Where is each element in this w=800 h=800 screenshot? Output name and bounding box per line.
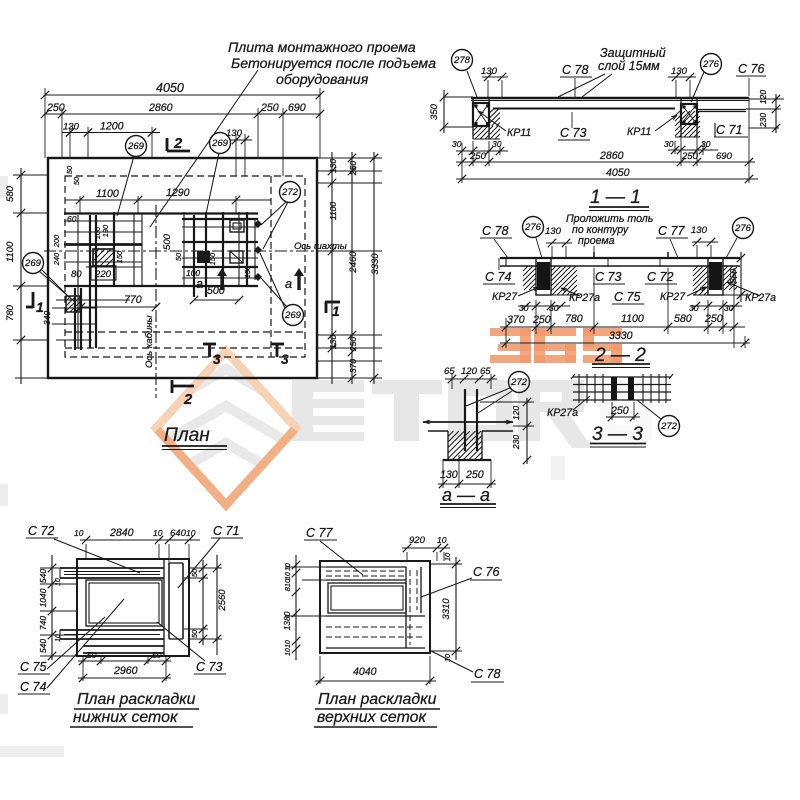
svg-text:1100: 1100 bbox=[5, 241, 16, 262]
svg-text:а: а bbox=[285, 276, 292, 291]
svg-text:276: 276 bbox=[524, 222, 542, 233]
svg-text:С 75: С 75 bbox=[614, 290, 640, 304]
svg-text:С 78: С 78 bbox=[562, 63, 588, 77]
svg-text:130: 130 bbox=[328, 335, 338, 349]
svg-text:С 74: С 74 bbox=[20, 680, 46, 694]
svg-text:780: 780 bbox=[5, 304, 16, 321]
svg-text:1 — 1: 1 — 1 bbox=[590, 187, 641, 208]
svg-text:С 73: С 73 bbox=[595, 270, 621, 284]
svg-text:50: 50 bbox=[190, 629, 199, 638]
svg-text:810: 810 bbox=[283, 578, 292, 591]
svg-text:120: 120 bbox=[461, 366, 478, 377]
svg-text:690: 690 bbox=[288, 102, 306, 114]
svg-text:С 76: С 76 bbox=[738, 62, 764, 76]
svg-text:10: 10 bbox=[437, 535, 447, 545]
svg-text:120: 120 bbox=[511, 406, 521, 420]
svg-text:План: План bbox=[164, 425, 210, 446]
svg-text:540: 540 bbox=[38, 569, 48, 583]
svg-text:250: 250 bbox=[532, 314, 551, 326]
svg-text:Ось кабины: Ось кабины bbox=[144, 315, 155, 368]
svg-text:640: 640 bbox=[170, 528, 187, 539]
svg-text:65: 65 bbox=[480, 366, 491, 377]
svg-text:3330: 3330 bbox=[370, 253, 381, 275]
svg-text:10: 10 bbox=[186, 528, 196, 538]
svg-text:С 78: С 78 bbox=[482, 224, 508, 238]
svg-text:10: 10 bbox=[285, 563, 292, 571]
svg-text:50: 50 bbox=[152, 650, 162, 660]
svg-text:269: 269 bbox=[24, 258, 42, 269]
svg-text:3330: 3330 bbox=[609, 330, 633, 342]
svg-text:230: 230 bbox=[511, 435, 521, 450]
svg-text:С 71: С 71 bbox=[213, 524, 239, 538]
svg-text:2860: 2860 bbox=[148, 102, 173, 114]
svg-text:272: 272 bbox=[281, 187, 299, 198]
svg-text:1: 1 bbox=[332, 304, 340, 319]
svg-text:4050: 4050 bbox=[156, 81, 184, 95]
svg-text:10: 10 bbox=[55, 578, 62, 586]
svg-text:276: 276 bbox=[734, 223, 752, 234]
svg-text:План раскладки: План раскладки bbox=[77, 691, 196, 708]
svg-text:580: 580 bbox=[5, 185, 16, 202]
svg-text:Ось шахты: Ось шахты bbox=[294, 241, 347, 252]
svg-text:1200: 1200 bbox=[100, 121, 124, 133]
svg-text:30: 30 bbox=[452, 139, 462, 149]
svg-text:370: 370 bbox=[507, 314, 525, 326]
svg-text:2: 2 bbox=[183, 392, 193, 408]
svg-text:КР11: КР11 bbox=[507, 127, 531, 139]
svg-text:2560: 2560 bbox=[217, 589, 228, 612]
svg-text:50: 50 bbox=[72, 176, 81, 185]
svg-text:130: 130 bbox=[440, 469, 458, 481]
svg-text:С 72: С 72 bbox=[28, 524, 54, 538]
svg-text:1100: 1100 bbox=[96, 188, 119, 200]
svg-text:3: 3 bbox=[213, 352, 221, 367]
svg-text:130: 130 bbox=[328, 159, 338, 173]
svg-text:3: 3 bbox=[281, 352, 289, 367]
svg-text:30: 30 bbox=[549, 303, 559, 313]
svg-text:С 73: С 73 bbox=[560, 126, 586, 140]
svg-text:150: 150 bbox=[208, 252, 217, 265]
svg-text:1290: 1290 bbox=[166, 187, 190, 199]
svg-text:580: 580 bbox=[674, 313, 692, 325]
svg-text:С 78: С 78 bbox=[474, 667, 500, 681]
svg-text:С 72: С 72 bbox=[647, 270, 673, 284]
svg-text:нижних сеток: нижних сеток bbox=[73, 709, 179, 726]
svg-text:272: 272 bbox=[510, 377, 528, 388]
svg-text:4050: 4050 bbox=[606, 167, 630, 179]
svg-text:верхних сеток: верхних сеток bbox=[317, 709, 427, 726]
svg-text:КР27: КР27 bbox=[492, 291, 518, 303]
svg-text:920: 920 bbox=[409, 535, 426, 546]
svg-text:269: 269 bbox=[284, 310, 302, 321]
svg-text:350: 350 bbox=[728, 269, 738, 283]
svg-text:50: 50 bbox=[87, 650, 97, 660]
svg-text:130: 130 bbox=[226, 128, 243, 139]
svg-text:350: 350 bbox=[429, 103, 440, 120]
svg-text:200: 200 bbox=[52, 234, 61, 248]
svg-text:80: 80 bbox=[71, 269, 82, 280]
svg-text:150: 150 bbox=[115, 250, 124, 263]
svg-text:250: 250 bbox=[260, 102, 279, 114]
svg-text:190: 190 bbox=[101, 224, 110, 237]
svg-text:130: 130 bbox=[671, 66, 688, 77]
svg-text:оборудования: оборудования bbox=[276, 72, 369, 88]
svg-text:250: 250 bbox=[610, 405, 629, 417]
svg-text:240: 240 bbox=[52, 252, 61, 266]
svg-text:2840: 2840 bbox=[109, 527, 134, 539]
svg-text:План раскладки: План раскладки bbox=[318, 691, 437, 708]
svg-text:10: 10 bbox=[55, 634, 62, 642]
svg-text:а: а bbox=[196, 276, 203, 291]
svg-text:278: 278 bbox=[453, 55, 471, 66]
svg-text:250: 250 bbox=[681, 151, 699, 162]
svg-text:С 77: С 77 bbox=[658, 224, 685, 238]
svg-text:Плита монтажного проема: Плита монтажного проема bbox=[228, 40, 416, 56]
svg-text:10: 10 bbox=[153, 528, 163, 538]
svg-text:370: 370 bbox=[348, 359, 358, 373]
svg-text:50: 50 bbox=[65, 165, 74, 174]
svg-text:269: 269 bbox=[211, 138, 229, 149]
svg-text:2 — 2: 2 — 2 bbox=[594, 345, 646, 366]
svg-text:50: 50 bbox=[190, 568, 199, 577]
svg-text:65: 65 bbox=[444, 366, 455, 377]
svg-text:690: 690 bbox=[716, 151, 733, 162]
svg-text:С 74: С 74 bbox=[485, 270, 511, 284]
svg-text:10: 10 bbox=[74, 528, 84, 538]
svg-text:1: 1 bbox=[36, 300, 44, 315]
svg-text:С 73: С 73 bbox=[196, 660, 222, 674]
svg-text:740: 740 bbox=[38, 616, 48, 630]
svg-text:220: 220 bbox=[94, 269, 112, 280]
svg-text:60: 60 bbox=[67, 214, 77, 224]
svg-text:С 76: С 76 bbox=[473, 565, 499, 579]
svg-text:а — а: а — а bbox=[442, 485, 490, 505]
svg-text:269: 269 bbox=[127, 141, 145, 152]
svg-text:230: 230 bbox=[758, 113, 768, 128]
svg-text:250: 250 bbox=[469, 151, 487, 162]
svg-text:250: 250 bbox=[348, 161, 358, 176]
svg-text:КР11: КР11 bbox=[627, 126, 651, 138]
svg-text:4040: 4040 bbox=[353, 666, 377, 678]
svg-text:130: 130 bbox=[691, 225, 708, 236]
svg-text:500: 500 bbox=[162, 233, 173, 250]
svg-text:слой 15мм: слой 15мм bbox=[598, 59, 660, 73]
svg-text:3310: 3310 bbox=[441, 598, 452, 620]
svg-text:КР27: КР27 bbox=[660, 291, 686, 303]
svg-text:250: 250 bbox=[348, 337, 358, 352]
svg-text:1040: 1040 bbox=[38, 588, 48, 607]
svg-text:2960: 2960 bbox=[113, 665, 138, 677]
svg-text:130: 130 bbox=[63, 122, 80, 133]
svg-text:10: 10 bbox=[285, 572, 292, 580]
svg-text:С 77: С 77 bbox=[306, 526, 333, 540]
svg-text:1380: 1380 bbox=[282, 611, 292, 630]
svg-text:КР27а: КР27а bbox=[547, 407, 578, 419]
svg-text:1100: 1100 bbox=[621, 313, 644, 325]
svg-text:250: 250 bbox=[704, 313, 723, 325]
svg-text:30: 30 bbox=[664, 139, 674, 149]
svg-text:2: 2 bbox=[173, 136, 183, 152]
svg-text:Защитный: Защитный bbox=[600, 46, 666, 60]
svg-text:780: 780 bbox=[565, 313, 583, 325]
svg-text:проема: проема bbox=[578, 235, 615, 247]
svg-text:1100: 1100 bbox=[328, 202, 338, 221]
svg-text:10: 10 bbox=[285, 640, 292, 648]
svg-text:276: 276 bbox=[702, 59, 720, 70]
svg-text:250: 250 bbox=[465, 469, 484, 481]
svg-text:10: 10 bbox=[443, 552, 452, 561]
svg-text:120: 120 bbox=[758, 90, 768, 104]
svg-text:Бетонируется после подъема: Бетонируется после подъема bbox=[231, 56, 436, 72]
svg-text:150: 150 bbox=[243, 265, 252, 278]
svg-text:С 75: С 75 bbox=[20, 660, 46, 674]
svg-text:10: 10 bbox=[285, 648, 292, 656]
svg-text:540: 540 bbox=[38, 639, 48, 653]
svg-text:2860: 2860 bbox=[599, 150, 624, 162]
svg-text:С 71: С 71 bbox=[716, 123, 742, 137]
svg-text:2460: 2460 bbox=[348, 251, 359, 274]
svg-text:770: 770 bbox=[124, 294, 142, 306]
svg-text:130: 130 bbox=[545, 226, 562, 237]
svg-text:3 — 3: 3 — 3 bbox=[592, 424, 643, 445]
svg-text:50: 50 bbox=[174, 252, 183, 261]
svg-text:272: 272 bbox=[660, 421, 678, 432]
svg-text:КР27а: КР27а bbox=[745, 292, 776, 304]
